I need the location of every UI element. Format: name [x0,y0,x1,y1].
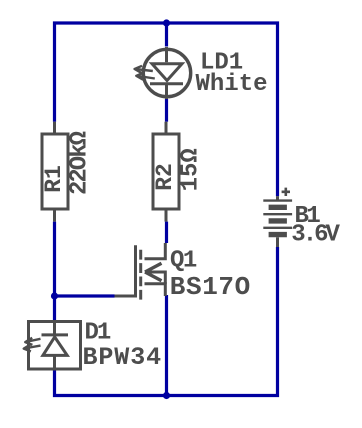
svg-text:3.6V: 3.6V [291,222,340,249]
value 15Ohm [178,148,205,191]
node top junction [163,19,170,26]
wire top rail net VCC [55,23,278,196]
label Q1 [170,248,197,275]
wire gate net [55,294,115,297]
svg-text:22OkΩ: 22OkΩ [67,131,94,195]
svg-text:Q1: Q1 [170,248,197,275]
label LD1 [200,49,243,76]
value BPW34 [83,343,163,372]
resistor R1 [42,122,68,222]
svg-text:15Ω: 15Ω [178,148,205,191]
label D1 [85,319,111,346]
svg-text:White: White [196,71,268,98]
wire bottom rail net GND [55,247,278,396]
value BS170 [170,272,251,302]
wire R2 to drain [165,222,168,243]
svg-text:BS17O: BS17O [170,272,251,302]
wire LED anode [165,23,168,47]
photodiode D1 [24,322,81,370]
label R2 [152,163,178,191]
LED LD1 [135,47,191,99]
svg-text:BPW34: BPW34 [83,343,163,372]
node gate junction [51,292,58,299]
resistor R2 [153,122,179,222]
label B1 [295,203,321,230]
value 3.6V [291,222,340,249]
wire LED cathode to R2 [165,99,168,122]
wire left middle segment [53,222,56,320]
battery B1 [263,196,292,247]
svg-text:R2: R2 [152,163,178,191]
svg-text:R1: R1 [41,165,67,193]
value 220kOhm [67,131,94,195]
value White [196,71,268,98]
plus sign polarity [282,188,290,196]
node bottom junction [163,392,170,399]
wire source to GND [165,295,168,396]
transistor Q1 MOSFET [115,243,166,300]
label R1 [41,165,67,193]
